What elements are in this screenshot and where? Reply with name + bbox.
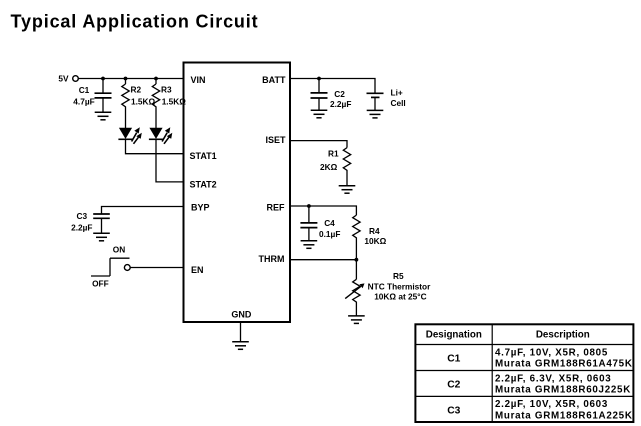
svg-text:GND: GND	[231, 310, 252, 320]
svg-text:OFF: OFF	[92, 279, 109, 289]
svg-text:BATT: BATT	[262, 75, 286, 85]
svg-text:Cell: Cell	[391, 98, 406, 108]
LED D1	[118, 127, 141, 144]
svg-text:R2: R2	[131, 84, 142, 94]
resistor R4	[353, 215, 387, 260]
svg-text:NTC Thermistor: NTC Thermistor	[368, 281, 431, 291]
wire EN	[130, 267, 183, 269]
node junction C4	[307, 204, 311, 208]
svg-text:THRM: THRM	[259, 254, 285, 264]
resistor R1	[320, 148, 351, 186]
ground BT1	[367, 110, 384, 118]
svg-text:STAT2: STAT2	[190, 179, 217, 189]
switch SW1 ON/OFF	[91, 245, 130, 289]
svg-text:R1: R1	[328, 149, 339, 159]
svg-text:Li+: Li+	[391, 88, 403, 98]
LED D2	[149, 127, 172, 144]
svg-text:1.5KΩ: 1.5KΩ	[131, 97, 156, 107]
ground R5	[348, 316, 365, 324]
svg-text:Murata GRM188R61A475K: Murata GRM188R61A475K	[495, 359, 633, 370]
svg-text:4.7µF: 4.7µF	[73, 97, 94, 107]
svg-text:C4: C4	[324, 218, 335, 228]
resistor R2	[122, 79, 156, 109]
svg-text:2.2µF, 10V, X5R, 0603: 2.2µF, 10V, X5R, 0603	[495, 399, 608, 410]
wire BYP	[102, 207, 184, 215]
svg-text:Murata GRM188R60J225K: Murata GRM188R60J225K	[495, 385, 631, 396]
svg-text:STAT1: STAT1	[190, 151, 217, 161]
wire BATT	[290, 79, 375, 94]
ground C1	[95, 112, 112, 120]
svg-text:10KΩ: 10KΩ	[364, 236, 386, 246]
svg-text:ISET: ISET	[265, 135, 286, 145]
capacitor C3	[71, 211, 110, 233]
node junction R2	[124, 77, 128, 81]
wire R3 to LED D2	[155, 109, 157, 129]
ground GND pin	[232, 342, 249, 350]
wire ISET	[290, 141, 347, 148]
svg-text:Designation: Designation	[426, 330, 482, 341]
svg-text:C1: C1	[79, 85, 90, 95]
capacitor C1	[73, 79, 111, 113]
svg-text:2KΩ: 2KΩ	[320, 162, 338, 172]
svg-text:BYP: BYP	[191, 203, 210, 213]
svg-text:EN: EN	[191, 265, 204, 275]
IC U1 body	[184, 63, 291, 323]
node junction R3	[154, 77, 158, 81]
svg-text:ON: ON	[113, 245, 125, 255]
capacitor C2	[311, 79, 352, 111]
svg-text:4.7µF, 10V, X5R, 0805: 4.7µF, 10V, X5R, 0805	[495, 347, 608, 358]
ground C2	[311, 110, 328, 118]
ground C4	[301, 241, 318, 249]
svg-text:C3: C3	[76, 211, 87, 221]
node junction C2	[317, 77, 321, 81]
component table	[415, 324, 633, 422]
svg-text:C3: C3	[447, 405, 460, 416]
wire REF	[290, 206, 356, 215]
resistor R3	[152, 79, 186, 109]
svg-text:R4: R4	[369, 226, 380, 236]
svg-text:C1: C1	[447, 354, 460, 365]
svg-text:2.2µF, 6.3V, X5R, 0603: 2.2µF, 6.3V, X5R, 0603	[495, 373, 611, 384]
svg-text:VIN: VIN	[191, 75, 206, 85]
svg-text:REF: REF	[267, 203, 286, 213]
wire THRM	[290, 259, 356, 261]
node junction THRM	[355, 258, 359, 262]
svg-text:C2: C2	[334, 89, 345, 99]
wire GND pin	[240, 322, 242, 342]
svg-text:10KΩ at 25°C: 10KΩ at 25°C	[374, 292, 426, 302]
thermistor R5	[345, 260, 431, 316]
wire D1 to STAT1	[126, 139, 184, 154]
wire 5V to VIN	[78, 78, 183, 80]
svg-text:5V: 5V	[58, 74, 69, 84]
svg-text:2.2µF: 2.2µF	[330, 99, 351, 109]
svg-text:R3: R3	[161, 84, 172, 94]
ground C3	[93, 233, 110, 241]
svg-text:2.2µF: 2.2µF	[71, 223, 92, 233]
svg-text:C2: C2	[447, 380, 460, 391]
battery BT1 Li+ cell	[367, 88, 406, 111]
svg-text:R5: R5	[393, 271, 404, 281]
capacitor C4	[300, 206, 340, 241]
terminal 5V	[58, 74, 78, 84]
svg-text:1.5KΩ: 1.5KΩ	[162, 97, 187, 107]
wire R2 to LED D1	[125, 109, 127, 129]
svg-text:0.1µF: 0.1µF	[319, 229, 340, 239]
svg-text:Typical Application Circuit: Typical Application Circuit	[11, 11, 259, 31]
node junction C1	[101, 77, 105, 81]
ground R1	[339, 186, 356, 194]
svg-text:Murata GRM188R61A225K: Murata GRM188R61A225K	[495, 410, 633, 421]
svg-text:Description: Description	[536, 330, 590, 341]
wire D2 to STAT2	[156, 139, 184, 182]
